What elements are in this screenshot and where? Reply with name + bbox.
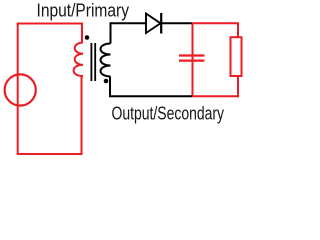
wire: secondary top lead (110, 23, 112, 43)
inductor: transformer primary winding (74, 43, 83, 77)
inductor: transformer secondary winding (101, 44, 111, 77)
wire: bottom rail red segment (192, 95, 239, 97)
transformer core line 1 (90, 43, 92, 81)
polarity dot: secondary (bottom) (104, 79, 109, 84)
wire: left vertical of primary loop (17, 24, 19, 155)
wire: capacitor lead vertical (through plates) (192, 23, 194, 96)
wire: bottom of primary loop (17, 153, 82, 155)
wire: load bottom lead (237, 76, 239, 97)
resistor R1 load (rectangle) (231, 37, 242, 76)
capacitor C1 top plate (179, 54, 205, 56)
diode D1 (triangle) (146, 14, 161, 34)
wire: diode cathode to node (black) (162, 22, 193, 24)
polarity dot: primary (top) (85, 35, 90, 40)
wire: secondary top to diode anode (110, 22, 147, 24)
wire: secondary bottom lead (109, 77, 111, 97)
source V1 (circle) (5, 74, 36, 105)
diode D1 cathode bar (160, 13, 162, 34)
wire: node to top-right corner (red) (192, 22, 238, 24)
wire: primary top lead down to winding (81, 23, 83, 43)
svg-text:Output/Secondary: Output/Secondary (112, 103, 225, 123)
transformer core line 2 (94, 43, 96, 81)
wire: top of primary loop (17, 23, 82, 25)
capacitor C1 bottom plate (179, 59, 205, 61)
wire: primary bottom lead up to winding (81, 76, 83, 155)
svg-text:Input/Primary: Input/Primary (37, 1, 130, 21)
wire: bottom rail black segment (109, 95, 192, 97)
wire: right branch down to load (237, 22, 239, 37)
